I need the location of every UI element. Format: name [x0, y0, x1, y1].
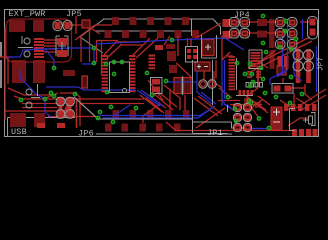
- svg-text:JP6: JP6: [78, 129, 94, 139]
- svg-text:USB: USB: [11, 127, 27, 137]
- svg-text:JP7: JP7: [318, 57, 326, 71]
- svg-text:EXT_PWR: EXT_PWR: [9, 9, 46, 19]
- svg-text:JP1: JP1: [207, 128, 223, 138]
- svg-text:JP5: JP5: [66, 9, 82, 19]
- svg-text:JP4: JP4: [234, 10, 250, 20]
